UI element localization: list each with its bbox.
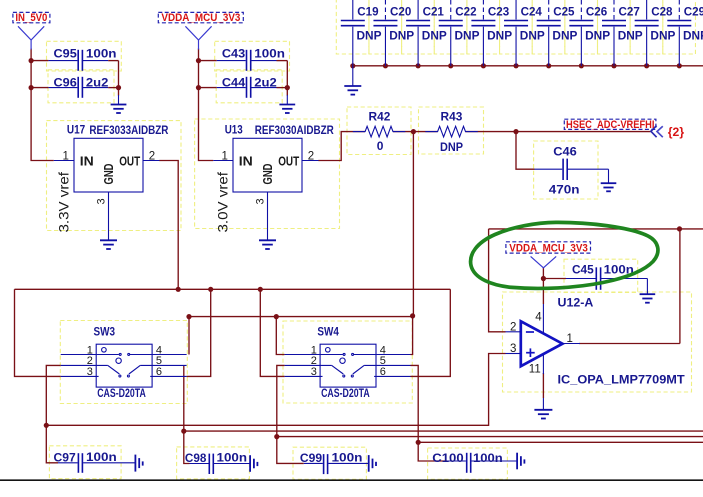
wire R42 node down to SW row [412, 132, 414, 316]
capacitor C100 [466, 453, 468, 473]
svg-text:3.0V vref: 3.0V vref [215, 172, 231, 233]
wire rail L4 [418, 441, 703, 443]
svg-text:1: 1 [567, 333, 573, 345]
wire SW3 pin2 down to C97 and IN+ rail [46, 365, 60, 462]
wire rail L2 [184, 430, 703, 432]
junction (516,131.6) [513, 129, 518, 134]
svg-text:CAS-D20TA: CAS-D20TA [97, 386, 146, 400]
svg-text:3.3V vref: 3.3V vref [56, 172, 72, 233]
power port VDDA_MCU_3V3 mid [531, 256, 557, 267]
capacitor C97 [77, 453, 79, 473]
wire SW4 pin5 down to C100 and rail L4 [411, 365, 447, 461]
svg-text:DNP: DNP [520, 28, 545, 42]
bank designators C19-C29 and DNP values [357, 4, 703, 42]
svg-text:C43: C43 [222, 47, 246, 61]
wire rail L3 [277, 436, 703, 438]
dashed box around R42 [347, 107, 411, 155]
junction (287.3,87.6) [285, 85, 290, 90]
junction (483.4,65.8) [481, 63, 486, 68]
junction (178.2,289.3) [176, 287, 181, 292]
svg-text:2: 2 [149, 151, 155, 163]
svg-text:DNP: DNP [487, 28, 512, 42]
svg-text:R43: R43 [441, 110, 463, 124]
svg-text:DNP: DNP [552, 28, 577, 42]
junction (31.1,60.6) [29, 58, 34, 63]
wire SW3 pin4 to mid rail [188, 317, 190, 355]
junction (198.5,87.6) [196, 85, 201, 90]
wire VDDA2 down to op-amp pin4 [542, 279, 544, 305]
capacitor C96 [77, 77, 79, 98]
svg-text:2u2: 2u2 [254, 76, 277, 90]
junction (260.3,289.3) [258, 287, 263, 292]
net label VDDA_MCU_3V3 mid [506, 242, 591, 253]
svg-text:IN: IN [80, 153, 94, 168]
ground below C44 [286, 95, 288, 104]
svg-text:C46: C46 [553, 145, 577, 159]
wire SW3 pin6 up to rail [187, 289, 211, 376]
svg-text:{2}: {2} [668, 127, 685, 139]
off-sheet connector chevrons for HSEC_ADC-VREFHI [651, 126, 657, 138]
wire op-amp output feedback rail [489, 228, 703, 230]
wire C95/C96 right drop to ground [118, 61, 120, 96]
junction (189,316.6) [186, 314, 191, 319]
dashed box around C43 [215, 41, 290, 71]
wire op-amp pin11 to ground [542, 373, 544, 398]
svg-text:100n: 100n [473, 451, 503, 465]
ground below U17 pin3 [108, 232, 110, 241]
capacitor C20 [373, 0, 397, 66]
ground right of C100 [516, 453, 518, 470]
wire op-amp IN+ from bottom rail [46, 354, 505, 426]
capacitor C22 [439, 0, 463, 66]
capacitor C45 [595, 267, 597, 290]
svg-text:C100: C100 [432, 451, 464, 465]
junction (198.5,60.6) [196, 58, 201, 63]
svg-text:VDDA_MCU_3V3: VDDA_MCU_3V3 [161, 12, 240, 24]
junction (581.35,65.8) [579, 63, 584, 68]
wire SW4 pin3 up to rail [260, 289, 284, 376]
ground right of C46 [608, 169, 610, 183]
junction (46.3,425.3) [44, 423, 49, 428]
svg-text:DNP: DNP [683, 28, 703, 42]
svg-text:100n: 100n [332, 451, 363, 465]
capacitor C29 [667, 0, 691, 66]
svg-text:U12-A: U12-A [558, 296, 594, 310]
dashed box around SW3 [60, 321, 187, 404]
dashed box around C95 [47, 41, 122, 71]
wire C44 row [199, 87, 217, 89]
svg-text:C97: C97 [54, 450, 77, 464]
svg-text:DNP: DNP [650, 28, 675, 42]
svg-text:HSEC_ADC-VREFHI: HSEC_ADC-VREFHI [566, 119, 655, 131]
wire C43 row [199, 60, 217, 62]
junction (679.3,65.8) [677, 63, 682, 68]
wire C96 row [31, 87, 48, 89]
dashed box around R43 [419, 107, 484, 154]
dashed box around U12-A [503, 292, 692, 392]
junction (276.8,436.6) [274, 434, 279, 439]
svg-text:GND: GND [261, 164, 275, 185]
svg-text:C99: C99 [300, 451, 323, 465]
junction (276.3,316.6) [274, 314, 279, 319]
junction (413.4,131.6) [411, 129, 416, 134]
svg-text:100n: 100n [86, 450, 117, 464]
svg-text:C22: C22 [455, 4, 477, 18]
wire SW4 pin2 down to C99 and rail L3 [277, 365, 304, 463]
dashed box around C46 [534, 141, 598, 199]
svg-text:C45: C45 [572, 263, 594, 277]
svg-text:470n: 470n [549, 183, 580, 197]
dashed boxes around C19-C29 bank [336, 0, 369, 54]
svg-text:C44: C44 [222, 76, 246, 90]
svg-text:DNP: DNP [618, 28, 643, 42]
svg-text:SW4: SW4 [317, 325, 339, 339]
wire C46 branch [516, 132, 535, 170]
resistor R42 [353, 126, 406, 137]
junction (548.7,65.8) [546, 63, 551, 68]
svg-text:3: 3 [87, 366, 93, 378]
svg-text:4: 4 [535, 311, 542, 323]
ground below U13 pin3 [267, 232, 269, 241]
svg-text:OUT: OUT [119, 153, 140, 168]
capacitor bank C19-C29 plates and leads [341, 0, 692, 66]
capacitor C21 [406, 0, 430, 66]
dashed box around C99 [293, 447, 366, 479]
capacitor C46 [562, 159, 564, 180]
hand-drawn green highlight ellipse [471, 222, 658, 288]
ground at left end of bank bus [352, 66, 354, 86]
junction (118.5,87.6) [116, 85, 121, 90]
dashed box around SW4 [283, 321, 412, 403]
voltage reference U17 body [74, 138, 143, 192]
wire C43/C44 right drop to ground [286, 61, 288, 96]
power port IN_5V0 [18, 26, 44, 40]
wire VDDA_MCU_3V3 vertical to U13 pin1 [199, 49, 214, 161]
dashed box around C98 [177, 447, 250, 479]
capacitor C99 [323, 454, 325, 474]
dashed box around C96 [48, 70, 114, 103]
svg-text:IN_5V0: IN_5V0 [15, 12, 47, 24]
wire op-amp output rise [679, 229, 681, 344]
capacitor C25 [537, 0, 561, 66]
dashed box around C45 [564, 259, 638, 292]
svg-text:11: 11 [529, 364, 541, 376]
wire feedback down to op-amp IN- [489, 229, 506, 332]
svg-text:C28: C28 [651, 4, 673, 18]
junction (516.05,65.8) [513, 63, 518, 68]
svg-text:IC_OPA_LMP7709MT: IC_OPA_LMP7709MT [558, 373, 686, 387]
ground below op-amp pin11 [542, 398, 544, 410]
wire SW3 pin5 down to rail L2 [184, 365, 190, 463]
svg-text:2: 2 [510, 321, 516, 333]
svg-text:3: 3 [96, 198, 108, 204]
svg-text:3: 3 [311, 366, 317, 378]
svg-text:3: 3 [255, 198, 267, 204]
svg-text:REF3030AIDBZR: REF3030AIDBZR [255, 123, 334, 137]
svg-text:CAS-D20TA: CAS-D20TA [321, 386, 370, 400]
svg-text:100n: 100n [86, 47, 117, 61]
svg-text:C98: C98 [185, 451, 207, 465]
junction (646.65,65.8) [644, 63, 649, 68]
junction (614,65.8) [611, 63, 616, 68]
svg-text:6: 6 [156, 366, 162, 378]
ground below C96 [118, 95, 120, 104]
wire left loop to SW3 pin3 [15, 289, 61, 376]
capacitor C44 [246, 77, 248, 98]
wire U13 OUT up to R42 [318, 132, 365, 161]
svg-text:1: 1 [63, 151, 69, 163]
svg-text:2u2: 2u2 [86, 76, 109, 90]
svg-text:SW3: SW3 [94, 325, 116, 339]
net label HSEC_ADC-VREFHI [564, 119, 656, 129]
wire mid rail [189, 316, 413, 318]
resistor R43 [425, 126, 478, 137]
svg-text:U17: U17 [67, 123, 86, 137]
junction (385.45,65.8) [383, 63, 388, 68]
dashed box around C44 [216, 70, 282, 103]
capacitor C19 [341, 0, 365, 66]
wire SW4 pin4 to mid rail [411, 316, 413, 355]
net label IN_5V0 [13, 12, 50, 22]
junction (450.75,65.8) [448, 63, 453, 68]
net label VDDA_MCU_3V3 top [158, 12, 243, 22]
svg-text:3: 3 [510, 343, 516, 355]
sheet border bottom line [0, 479, 703, 481]
svg-text:U13: U13 [225, 123, 243, 137]
svg-text:VDDA_MCU_3V3: VDDA_MCU_3V3 [509, 242, 588, 254]
svg-text:0: 0 [377, 139, 384, 153]
ground right of C97 [134, 455, 136, 472]
svg-text:REF3033AIDBZR: REF3033AIDBZR [89, 123, 168, 137]
svg-text:C96: C96 [54, 76, 78, 90]
svg-text:C27: C27 [619, 4, 641, 18]
svg-text:100n: 100n [254, 47, 285, 61]
junction (183.8,431.1) [181, 429, 186, 434]
junction (412.6,315.9) [410, 313, 415, 318]
switch SW3 [61, 344, 187, 387]
junction (210.7,289.3) [208, 287, 213, 292]
ground right of C99 [368, 455, 370, 472]
capacitor C26 [569, 0, 593, 66]
dashed box around C97 [49, 446, 121, 479]
wire U17 OUT down to SW net [159, 161, 178, 290]
svg-text:OUT: OUT [278, 153, 299, 168]
svg-text:DNP: DNP [422, 28, 447, 42]
junction (31.1,87.6) [29, 85, 34, 90]
capacitor C95 [77, 50, 79, 71]
ground right of C45 [646, 279, 648, 294]
svg-text:6: 6 [380, 366, 386, 378]
svg-text:C29: C29 [684, 4, 703, 18]
voltage reference U13 body [233, 138, 302, 192]
capacitor C24 [504, 0, 528, 66]
svg-text:C19: C19 [357, 4, 379, 18]
wire SW4 pin6 up to rail [411, 289, 451, 376]
junction (679.5,228.9) [677, 226, 682, 231]
wire C95 row [31, 60, 48, 62]
capacitor C98 [208, 454, 210, 474]
dashed box around U13 [195, 119, 340, 229]
capacitor C43 [246, 50, 248, 71]
svg-text:C20: C20 [390, 4, 412, 18]
wire SW row top rail [15, 288, 451, 290]
wire R43 to HSEC_ADC-VREFHI [465, 131, 650, 133]
svg-text:R42: R42 [369, 110, 391, 124]
capacitor C23 [471, 0, 495, 66]
svg-text:DNP: DNP [455, 28, 480, 42]
svg-text:DNP: DNP [389, 28, 414, 42]
svg-text:GND: GND [102, 164, 116, 185]
op-amp U12-A [521, 321, 563, 366]
svg-text:C23: C23 [488, 4, 510, 18]
wire R42-R43 node [393, 131, 438, 133]
svg-text:C25: C25 [553, 4, 575, 18]
wire SW4 pin1 to mid rail [276, 317, 284, 355]
svg-text:DNP: DNP [585, 28, 610, 42]
svg-text:DNP: DNP [440, 140, 463, 154]
wire VDDA2 to C45 [543, 268, 566, 279]
power port VDDA_MCU_3V3 top [185, 26, 211, 40]
capacitor C27 [602, 0, 626, 66]
dashed box around C100 [428, 448, 508, 479]
switch SW4 [285, 344, 411, 387]
capacitor C28 [635, 0, 659, 66]
svg-text:DNP: DNP [357, 28, 382, 42]
junction (543.4,278.5) [541, 276, 546, 281]
svg-text:IN: IN [239, 153, 253, 168]
svg-text:1: 1 [222, 151, 228, 163]
svg-text:2: 2 [308, 151, 314, 163]
dashed box around U17 [47, 121, 182, 231]
junction (418.2,442.3) [416, 440, 421, 445]
svg-text:C21: C21 [423, 4, 445, 18]
wire IN_5V0 vertical to U17 pin1 [31, 49, 54, 161]
svg-text:C24: C24 [521, 4, 543, 18]
ground right of C98 [249, 455, 251, 472]
junction (352.8,65.8) [350, 63, 355, 68]
junction (418.1,65.8) [416, 63, 421, 68]
wire cap bank bus [353, 65, 703, 67]
svg-text:C26: C26 [586, 4, 608, 18]
svg-text:100n: 100n [217, 451, 248, 465]
svg-text:C95: C95 [54, 47, 78, 61]
